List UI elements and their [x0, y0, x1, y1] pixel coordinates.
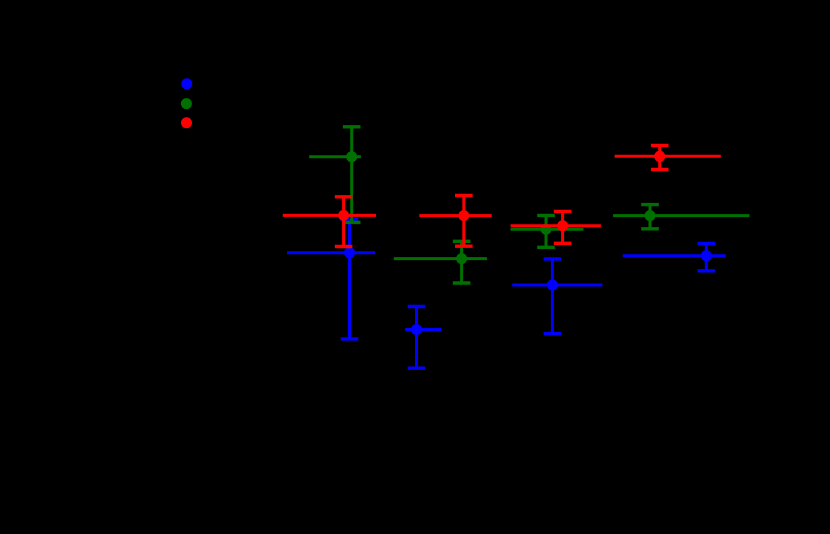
- red series pt4 x-error bar: [615, 155, 721, 158]
- red series pt2 y-error bar: [462, 196, 465, 247]
- blue series pt2 y-error bar: [415, 307, 418, 369]
- blue series pt1 bottom cap: [341, 337, 359, 340]
- red series pt4 bottom cap: [651, 168, 669, 171]
- red series pt1 marker: [338, 210, 349, 221]
- blue series pt4 bottom cap: [698, 269, 716, 272]
- red series pt2 bottom cap: [455, 244, 473, 247]
- red series pt1 y-error bar: [342, 197, 345, 247]
- green series pt2 y-error bar: [460, 241, 463, 283]
- green series pt2 top cap: [453, 240, 471, 243]
- blue series pt4 marker: [701, 250, 712, 261]
- red series pt2 marker: [458, 210, 469, 221]
- blue series pt1 marker: [344, 247, 355, 258]
- green series pt3 x-error bar: [511, 228, 584, 231]
- blue series pt3 x-error bar: [512, 284, 602, 287]
- legend marker blue: [181, 78, 192, 89]
- green series pt1 bottom cap: [343, 221, 361, 224]
- red series pt3 bottom cap: [554, 242, 572, 245]
- blue series pt2 x-error bar: [405, 328, 441, 331]
- red series pt4 marker: [654, 151, 665, 162]
- green series pt4 marker: [645, 210, 656, 221]
- green series pt1 marker: [346, 151, 357, 162]
- blue series pt2 top cap: [408, 305, 426, 308]
- blue series pt3 bottom cap: [544, 332, 562, 335]
- green series pt2 bottom cap: [453, 281, 471, 284]
- blue series pt3 top cap: [544, 257, 562, 260]
- red series pt1 bottom cap: [335, 245, 353, 248]
- red series pt1 x-error bar: [283, 214, 376, 217]
- green series pt3 y-error bar: [545, 215, 548, 247]
- green series pt4 x-error bar: [613, 214, 749, 217]
- blue series pt4 top cap: [698, 242, 716, 245]
- green series pt3 bottom cap: [537, 246, 555, 249]
- blue series pt1 x-error bar: [287, 251, 375, 254]
- green series pt3 marker: [541, 224, 552, 235]
- blue series pt3 marker: [547, 280, 558, 291]
- blue series pt4 x-error bar: [623, 254, 726, 257]
- red series pt2 x-error bar: [419, 214, 491, 217]
- red series pt1 top cap: [335, 195, 353, 198]
- blue series pt4 y-error bar: [705, 243, 708, 270]
- green series pt4 top cap: [641, 203, 659, 206]
- green series pt4 y-error bar: [649, 205, 652, 229]
- green series pt3 top cap: [537, 214, 555, 217]
- blue series pt2 bottom cap: [408, 367, 426, 370]
- red series pt4 top cap: [651, 144, 669, 147]
- green series pt2 x-error bar: [394, 257, 487, 260]
- red series pt3 marker: [557, 220, 568, 231]
- green series pt1 x-error bar: [309, 155, 361, 158]
- green series pt1 y-error bar: [350, 127, 353, 223]
- blue series pt2 marker: [411, 324, 422, 335]
- blue series pt3 y-error bar: [551, 259, 554, 334]
- green series pt2 marker: [456, 253, 467, 264]
- legend marker green: [181, 98, 192, 109]
- green series pt1 top cap: [343, 125, 361, 128]
- red series pt3 top cap: [554, 210, 572, 213]
- red series pt4 y-error bar: [658, 145, 661, 169]
- green series pt4 bottom cap: [641, 227, 659, 230]
- red series pt2 top cap: [455, 194, 473, 197]
- blue series pt1 top cap: [341, 218, 359, 221]
- blue series pt1 y-error bar: [348, 219, 351, 339]
- red series pt3 y-error bar: [561, 211, 564, 243]
- legend marker red: [181, 117, 192, 128]
- red series pt3 x-error bar: [511, 224, 601, 227]
